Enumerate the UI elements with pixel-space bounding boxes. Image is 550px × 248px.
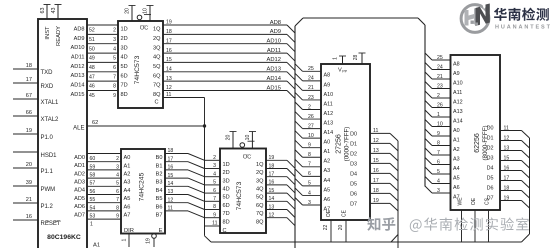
U3 pins A7/B7 labels	[124, 213, 163, 219]
svg-text:6: 6	[308, 171, 311, 177]
svg-text:READY: READY	[56, 26, 62, 46]
U1 left pin 18 TXD wire	[13, 63, 53, 76]
wire AD15 net from U2 pin 12 to address bus	[163, 85, 295, 98]
svg-text:6D: 6D	[223, 203, 230, 209]
svg-text:48: 48	[89, 65, 95, 71]
svg-text:ALE: ALE	[73, 125, 84, 131]
U1 left pin 20 P1.1 wire	[13, 162, 54, 175]
bus U6 data bus vertical	[522, 138, 530, 242]
U4 top pin 10 GND	[245, 132, 256, 149]
svg-text:7: 7	[437, 150, 440, 156]
svg-text:AD10: AD10	[71, 45, 85, 51]
bus horizontal top to U6	[303, 17, 418, 19]
svg-text:5Q: 5Q	[153, 64, 161, 70]
wire AD3 from U1 pin 57 to U3 pin 5	[74, 178, 121, 187]
svg-text:18: 18	[504, 185, 510, 191]
svg-text:OC: OC	[243, 155, 251, 161]
svg-text:23: 23	[437, 83, 443, 89]
svg-text:20: 20	[125, 8, 131, 14]
wire A7 net from U4 pin 12 to address bus	[266, 213, 295, 226]
wire AD15 from U1 pin 45 to U2 pin 9	[71, 91, 119, 100]
svg-text:19: 19	[269, 155, 275, 161]
bus vertical address bus	[294, 26, 296, 248]
svg-text:19: 19	[146, 238, 152, 244]
U4 pins 6D/6Q labels	[223, 203, 265, 209]
svg-text:AD11: AD11	[267, 48, 281, 54]
svg-text:13: 13	[168, 189, 174, 195]
svg-text:52: 52	[89, 28, 95, 34]
U6 bottom pin CS wire	[485, 197, 491, 242]
IC U1 80C196KC body	[38, 19, 87, 248]
U2 pins 5D/5Q labels	[121, 64, 162, 70]
wire address A11 tap to U5 pin 23	[295, 92, 333, 107]
wire AD8 from U1 pin 52 to U2 pin 2	[74, 25, 118, 34]
wire D3 from U3 pin 15 to U4	[165, 173, 205, 185]
svg-text:45: 45	[89, 93, 95, 99]
wire address A8 tap to U6 pin 25	[425, 53, 460, 67]
U1 left pin 21 P1.2 wire	[13, 197, 54, 210]
wire address A14 tap to U5 pin 27	[295, 121, 333, 136]
bus vertical to U6 address pins	[424, 25, 426, 187]
wire data D6 from U6 pin 18 to data bus	[487, 185, 530, 198]
svg-text:3: 3	[437, 188, 440, 194]
svg-text:4D: 4D	[223, 187, 230, 193]
wire address A7 tap to U5 pin 3	[295, 198, 330, 213]
svg-text:51: 51	[89, 37, 95, 43]
svg-text:11: 11	[212, 221, 217, 227]
svg-text:INST: INST	[45, 26, 51, 40]
U1 left pin HSD1 wire	[13, 152, 57, 159]
svg-text:14: 14	[168, 181, 174, 187]
svg-text:13: 13	[373, 148, 379, 154]
svg-text:26: 26	[308, 114, 314, 120]
svg-text:55: 55	[90, 197, 96, 203]
svg-text:AD1: AD1	[74, 163, 85, 169]
svg-text:B2: B2	[156, 172, 163, 178]
svg-text:28: 28	[353, 55, 359, 61]
svg-text:D3: D3	[350, 161, 357, 167]
svg-text:66: 66	[26, 110, 32, 116]
svg-text:4Q: 4Q	[153, 55, 161, 61]
svg-text:AD11: AD11	[71, 55, 85, 61]
svg-text:AD13: AD13	[266, 67, 281, 73]
svg-text:15: 15	[373, 158, 379, 164]
svg-text:2: 2	[437, 93, 440, 99]
svg-text:7: 7	[113, 74, 116, 80]
IC U4 74HC573 body	[220, 149, 266, 234]
wire address A4 tap to U5 pin 6	[295, 169, 330, 184]
svg-text:AD3: AD3	[74, 180, 85, 186]
wire address A0 tap to U6 pin 10	[425, 120, 460, 134]
svg-text:3D: 3D	[223, 178, 230, 184]
wire address A4 tap to U6 pin 6	[425, 158, 460, 172]
U1 left pin 16 RESET wire	[13, 214, 61, 227]
svg-text:A0: A0	[124, 155, 131, 161]
svg-text:5Q: 5Q	[256, 195, 264, 201]
svg-text:4D: 4D	[121, 55, 128, 61]
U2 pins 7D/7Q labels	[121, 83, 162, 89]
svg-text:A3: A3	[124, 180, 131, 186]
svg-text:74HC573: 74HC573	[236, 181, 243, 210]
wire data D2 from U6 pin 13 to data bus	[487, 145, 530, 158]
svg-text:59: 59	[90, 164, 96, 170]
svg-text:A13: A13	[453, 109, 463, 115]
svg-text:5D: 5D	[223, 195, 230, 201]
svg-text:25: 25	[308, 66, 314, 72]
wire AD11 net from U2 pin 16 to address bus	[163, 48, 295, 61]
svg-text:1Q: 1Q	[153, 27, 161, 33]
svg-text:XTAL2: XTAL2	[41, 117, 60, 123]
svg-text:11: 11	[168, 206, 173, 212]
svg-text:3D: 3D	[121, 45, 128, 51]
svg-text:10: 10	[245, 135, 251, 141]
svg-text:A1: A1	[93, 243, 100, 248]
svg-text:54: 54	[90, 205, 96, 211]
svg-text:16: 16	[373, 168, 379, 174]
U1 left pin 66 XTAL2 wire	[13, 110, 59, 123]
svg-text:1D: 1D	[223, 162, 230, 168]
svg-text:C: C	[154, 100, 158, 106]
svg-text:D5: D5	[487, 176, 494, 182]
U3 pins A3/B3 labels	[124, 180, 163, 186]
svg-text:AD12: AD12	[266, 57, 281, 63]
svg-text:7D: 7D	[121, 83, 128, 89]
svg-text:WE: WE	[458, 197, 464, 206]
svg-text:A5: A5	[324, 187, 331, 193]
svg-text:16: 16	[26, 214, 32, 220]
wire AD13 from U1 pin 47 to U2 pin 7	[71, 72, 119, 81]
U4 pins 2D/2Q labels	[223, 170, 265, 176]
U2 pins 2D/2Q labels	[121, 36, 162, 42]
svg-text:1: 1	[437, 112, 440, 118]
wire address A8 tap to U5 pin 25	[295, 64, 330, 79]
svg-text:A0: A0	[324, 140, 331, 146]
svg-text:49: 49	[89, 56, 95, 62]
svg-text:13: 13	[269, 204, 275, 210]
wire data D1 from U5 pin 12 to data bus	[350, 138, 398, 151]
U5 bottom pin 20 CE	[338, 209, 348, 242]
svg-text:D5: D5	[350, 181, 357, 187]
wire data D2 from U5 pin 13 to data bus	[350, 148, 398, 161]
svg-text:6: 6	[437, 159, 440, 165]
wire D5 from U3 pin 13 to U4	[165, 189, 205, 201]
svg-text:A13: A13	[324, 120, 334, 126]
svg-text:17: 17	[166, 38, 172, 44]
svg-text:53: 53	[90, 214, 96, 220]
svg-text:60: 60	[90, 156, 96, 162]
wire bottom control bus horizontal	[211, 241, 522, 243]
IC U5 27256 EPROM body	[321, 64, 370, 220]
svg-text:P1.2: P1.2	[41, 204, 54, 210]
wire U3 pin 1 DIR	[87, 219, 121, 228]
svg-text:67: 67	[26, 93, 32, 99]
U3 pins A5/B5 labels	[124, 196, 163, 202]
svg-text:17: 17	[269, 172, 275, 178]
svg-text:12: 12	[166, 85, 172, 91]
svg-text:13: 13	[504, 145, 510, 151]
svg-text:17: 17	[168, 156, 174, 162]
wire data D7 from U6 pin 19 to data bus	[487, 195, 530, 208]
svg-text:1Q: 1Q	[256, 162, 264, 168]
svg-text:A12: A12	[324, 111, 334, 117]
svg-text:6: 6	[113, 65, 116, 71]
wire address A7 tap to U6 pin 3	[425, 186, 460, 200]
svg-text:A6: A6	[124, 204, 131, 210]
U2 pins 4D/4Q labels	[121, 55, 162, 61]
svg-text:AD6: AD6	[74, 204, 85, 210]
svg-text:A14: A14	[453, 118, 463, 124]
svg-text:D0: D0	[487, 126, 494, 132]
svg-text:39: 39	[26, 180, 32, 186]
svg-text:A5: A5	[124, 196, 131, 202]
svg-text:B5: B5	[156, 196, 163, 202]
svg-text:7: 7	[308, 162, 311, 168]
wire A5 net from U4 pin 14 to address bus	[266, 196, 295, 209]
svg-text:6: 6	[213, 188, 216, 194]
svg-text:17: 17	[26, 77, 32, 83]
svg-text:7Q: 7Q	[153, 83, 161, 89]
svg-text:7Q: 7Q	[256, 211, 264, 217]
wire AD6 from U1 pin 54 to U3 pin 8	[74, 203, 121, 212]
svg-text:9: 9	[213, 212, 216, 218]
svg-text:18: 18	[166, 29, 172, 35]
svg-text:50: 50	[89, 46, 95, 52]
svg-text:8: 8	[308, 152, 311, 158]
svg-text:16: 16	[504, 165, 510, 171]
wire AD4 from U1 pin 56 to U3 pin 6	[74, 186, 121, 195]
svg-text:25: 25	[437, 55, 443, 61]
wire from bus to U4 pin 4	[205, 171, 221, 177]
wire address A12 tap to U5 pin 2	[295, 102, 333, 117]
svg-text:HSD1: HSD1	[41, 153, 58, 159]
wire AD9 from U1 pin 51 to U2 pin 3	[74, 34, 118, 43]
wire address A11 tap to U6 pin 23	[425, 82, 462, 96]
svg-text:8: 8	[113, 84, 116, 90]
svg-text:A6: A6	[453, 185, 460, 191]
U4 pin 11 C latch-enable wire	[205, 221, 227, 234]
svg-text:18: 18	[168, 148, 174, 154]
svg-text:OC: OC	[140, 26, 148, 32]
svg-text:19: 19	[504, 195, 510, 201]
U2 OE bubble and OC label	[137, 15, 151, 32]
svg-text:24: 24	[308, 76, 314, 82]
wire D0 from U3 pin 18 to U4	[165, 148, 205, 160]
svg-text:2D: 2D	[121, 36, 128, 42]
IC U3 74HC245 body	[121, 149, 165, 234]
svg-text:20: 20	[338, 225, 344, 231]
svg-text:D1: D1	[487, 136, 494, 142]
svg-text:B6: B6	[156, 204, 163, 210]
svg-text:5D: 5D	[121, 64, 128, 70]
svg-text:58: 58	[90, 173, 96, 179]
svg-text:21: 21	[26, 197, 32, 203]
wire address A2 tap to U5 pin 8	[295, 150, 330, 165]
IC U2 74HC573 body	[118, 21, 163, 108]
wire A2 net from U4 pin 17 to address bus	[266, 172, 295, 185]
svg-text:21: 21	[437, 74, 443, 80]
svg-text:5: 5	[116, 181, 119, 187]
svg-text:7D: 7D	[223, 211, 230, 217]
svg-text:47: 47	[89, 74, 95, 80]
svg-text:AD14: AD14	[71, 83, 85, 89]
U4 top pin 20 VCC	[226, 132, 237, 149]
wire address A9 tap to U5 pin 24	[295, 73, 330, 88]
wire D7 from U3 pin 11 to U4	[165, 206, 205, 218]
svg-text:74HC573: 74HC573	[134, 55, 141, 84]
svg-text:8D: 8D	[121, 92, 128, 98]
wire AD11 from U1 pin 49 to U2 pin 5	[71, 53, 118, 62]
U1 left pin 19 P1.0 wire	[13, 128, 54, 141]
svg-text:A3: A3	[453, 156, 460, 162]
U3 pins A6/B6 labels	[124, 204, 163, 210]
svg-text:18: 18	[26, 63, 32, 69]
svg-text:2: 2	[113, 28, 116, 34]
wire D1 from U3 pin 17 to U4	[165, 156, 205, 168]
wire address A1 tap to U6 pin 9	[425, 129, 460, 143]
svg-text:5: 5	[113, 56, 116, 62]
wire address A1 tap to U5 pin 9	[295, 140, 330, 155]
wire AD7 from U1 pin 53 to U3 pin 9	[74, 211, 121, 220]
svg-text:22: 22	[323, 225, 329, 231]
wire from bus to U4 pin 7	[205, 196, 221, 202]
svg-text:A4: A4	[124, 188, 131, 194]
svg-text:8: 8	[437, 140, 440, 146]
svg-text:27256: 27256	[336, 134, 343, 154]
svg-text:6: 6	[116, 189, 119, 195]
wire data D4 from U5 pin 16 to data bus	[350, 168, 398, 181]
svg-text:CE: CE	[342, 209, 348, 217]
wire AD1 from U1 pin 59 to U3 pin 3	[74, 162, 121, 171]
wire AD13 net from U2 pin 14 to address bus	[163, 67, 295, 80]
wire data D1 from U6 pin 12 to data bus	[487, 135, 530, 148]
U3 bottom pin 1 wire	[122, 234, 130, 248]
svg-text:2: 2	[308, 104, 311, 110]
IC U6 62256 RAM body	[451, 55, 501, 210]
wire data D3 from U5 pin 15 to data bus	[350, 158, 398, 171]
bus ALE/data vertical to U4	[205, 126, 212, 242]
wire address A10 tap to U5 pin 21	[295, 83, 333, 98]
watermark zhihu	[367, 217, 528, 232]
svg-text:A2: A2	[453, 147, 460, 153]
wire address A3 tap to U5 pin 7	[295, 159, 330, 174]
wire address A13 tap to U5 pin 26	[295, 112, 333, 127]
svg-text:1D: 1D	[121, 27, 128, 33]
svg-text:PWM: PWM	[41, 187, 56, 193]
svg-text:19: 19	[373, 198, 379, 204]
wire address A5 tap to U6 pin 5	[425, 167, 460, 181]
U4 pins 1D/1Q labels	[223, 162, 265, 168]
svg-text:14: 14	[269, 196, 275, 202]
wire A4 net from U4 pin 15 to address bus	[266, 188, 295, 201]
U1 left pin 39 PWM wire	[13, 180, 55, 193]
U4 pins 3D/3Q labels	[223, 178, 265, 184]
svg-text:D4: D4	[487, 166, 494, 172]
U3 pins A2/B2 labels	[124, 172, 163, 178]
wire from bus to U4 pin 9	[205, 212, 221, 218]
svg-text:A1: A1	[124, 163, 131, 169]
svg-text:26: 26	[437, 102, 443, 108]
wire AD12 from U1 pin 48 to U2 pin 6	[71, 62, 119, 71]
svg-text:A4: A4	[453, 166, 460, 172]
svg-text:19: 19	[166, 20, 172, 26]
U2 pins 1D/1Q labels	[121, 27, 162, 33]
svg-text:AD9: AD9	[270, 29, 281, 35]
svg-text:D2: D2	[487, 146, 494, 152]
svg-text:AD14: AD14	[266, 76, 281, 82]
svg-text:7: 7	[116, 197, 119, 203]
svg-text:4: 4	[213, 171, 216, 177]
svg-text:63: 63	[40, 8, 46, 14]
svg-text:8: 8	[213, 204, 216, 210]
svg-text:1: 1	[333, 57, 339, 60]
svg-text:AD5: AD5	[74, 196, 85, 202]
wire address A6 tap to U5 pin 4	[295, 188, 330, 203]
svg-text:8D: 8D	[223, 219, 230, 225]
svg-text:17: 17	[504, 175, 510, 181]
svg-text:B3: B3	[156, 180, 163, 186]
svg-text:3: 3	[213, 163, 216, 169]
svg-text:21: 21	[308, 85, 314, 91]
svg-text:4: 4	[116, 173, 119, 179]
wire address A5 tap to U5 pin 5	[295, 178, 330, 193]
svg-text:A6: A6	[324, 197, 331, 203]
wire address A3 tap to U6 pin 7	[425, 148, 460, 162]
svg-text:23: 23	[308, 95, 314, 101]
U5 top pin 1 Vpp	[333, 56, 348, 74]
svg-text:3: 3	[116, 164, 119, 170]
svg-text:19: 19	[26, 128, 32, 134]
U1 left pin 17 RXD wire	[13, 77, 54, 90]
wire AD12 net from U2 pin 15 to address bus	[163, 57, 295, 70]
svg-text:D4: D4	[350, 171, 357, 177]
svg-text:3: 3	[113, 37, 116, 43]
svg-text:A8: A8	[324, 73, 331, 79]
svg-text:16: 16	[168, 165, 174, 171]
wire from bus to U4 pin 6	[205, 188, 221, 194]
svg-text:15: 15	[269, 188, 275, 194]
svg-text:E: E	[159, 228, 163, 234]
U2 pin 11 C latch-enable wire to ALE	[154, 92, 204, 126]
svg-text:7: 7	[213, 196, 216, 202]
svg-text:A12: A12	[453, 99, 463, 105]
svg-text:D1: D1	[350, 141, 357, 147]
wire AD8 net from U2 pin 19 to address bus	[163, 20, 295, 33]
svg-text:TXD: TXD	[41, 70, 54, 76]
svg-text:A2: A2	[324, 159, 331, 165]
wire data D7 from U5 pin 19 to data bus	[350, 198, 398, 211]
svg-text:A4: A4	[324, 178, 331, 184]
svg-text:18: 18	[373, 188, 379, 194]
wire AD0 from U1 pin 60 to U3 pin 2	[74, 154, 121, 163]
svg-text:14: 14	[166, 67, 172, 73]
wire data D4 from U6 pin 16 to data bus	[487, 165, 530, 178]
svg-text:9: 9	[437, 131, 440, 137]
svg-text:15: 15	[166, 57, 172, 63]
svg-text:10: 10	[437, 121, 443, 127]
U6 bottom pin OE wire	[471, 197, 477, 242]
wire address A14 tap to U6 pin 1	[425, 110, 463, 124]
svg-text:D6: D6	[487, 186, 494, 192]
U2 pins 3D/3Q labels	[121, 45, 162, 51]
svg-text:1: 1	[122, 238, 128, 241]
svg-text:20: 20	[226, 135, 232, 141]
svg-text:3Q: 3Q	[256, 178, 264, 184]
wire ALE from U1 pin 62	[73, 120, 204, 131]
svg-text:9: 9	[308, 143, 311, 149]
svg-text:5: 5	[437, 169, 440, 175]
U6 bottom pin WE wire	[458, 197, 464, 242]
U3 DIR and E pin labels	[124, 228, 163, 234]
